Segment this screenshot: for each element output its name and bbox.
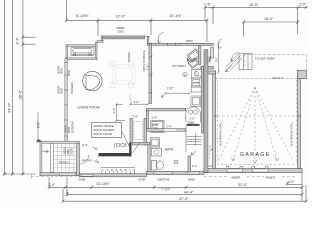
garage door notches	[226, 167, 268, 169]
dim stub y44	[23, 43, 36, 45]
small dim above shaft	[130, 103, 150, 106]
bottom extension x67	[66, 177, 68, 194]
nook wall window ticks	[168, 43, 176, 46]
garage stall dashed verticals	[214, 80, 302, 164]
hall lower west wall	[146, 111, 148, 129]
garage horizontal dashed arrow	[214, 115, 302, 117]
svg-text:8068'R: 8068'R	[266, 175, 275, 179]
leader j arrow	[230, 53, 238, 62]
svg-text:2'-4": 2'-4"	[166, 124, 172, 128]
crawl leader	[122, 131, 130, 147]
svg-text:SCREEN: SCREEN	[71, 121, 75, 133]
porch tile grid	[53, 143, 76, 171]
svg-text:3050: 3050	[60, 67, 64, 74]
window tick w2	[64, 74, 68, 76]
top wall step right	[147, 36, 149, 45]
porch top wall	[40, 141, 79, 143]
svg-text:FLOOR OVER: FLOOR OVER	[255, 56, 276, 60]
party wall inner line	[205, 50, 207, 173]
svg-text:GARAGE: GARAGE	[240, 152, 271, 158]
stall line right	[295, 80, 297, 164]
ticks dim 47-4	[62, 200, 308, 203]
bottom extension x306	[305, 185, 307, 201]
left dim vertical line 3	[22, 0, 24, 174]
extension x213	[212, 7, 214, 24]
svg-text:5067R-56: 5067R-56	[158, 177, 170, 181]
svg-text:5050: 5050	[118, 29, 124, 33]
svg-text:1'-6": 1'-6"	[204, 3, 212, 7]
step connector line	[145, 35, 149, 37]
shaft dashed interior	[134, 122, 143, 140]
fan leg 2	[233, 87, 255, 161]
bay step vertical	[101, 36, 103, 41]
svg-text:5050: 5050	[209, 56, 212, 62]
svg-text:3'-6": 3'-6"	[112, 108, 116, 114]
kitchen dim leader	[161, 93, 165, 97]
porch inner edge	[50, 143, 53, 172]
bay ring right	[96, 42, 98, 59]
front door arc	[80, 155, 89, 164]
stair dark wall	[99, 153, 132, 156]
window tick w1	[64, 62, 68, 64]
svg-text:9x19 PARKING STALL: 9x19 PARKING STALL	[220, 121, 223, 146]
floor over dashed line	[244, 54, 307, 56]
svg-text:13'-10½": 13'-10½"	[96, 182, 111, 186]
left dim bottom line	[3, 173, 36, 175]
window seat rect	[71, 48, 94, 56]
dim 4-0 line right	[287, 183, 302, 185]
door knob circle	[174, 160, 178, 164]
hall west wall	[149, 93, 152, 104]
porch overhang dashed	[32, 176, 77, 178]
left wall of living room	[65, 59, 67, 142]
window tick w4	[64, 104, 68, 106]
bath window 3050	[154, 172, 173, 174]
svg-text:10'-1½": 10'-1½"	[169, 14, 182, 18]
nook table tilted square 2	[188, 58, 199, 69]
svg-text:2'-4": 2'-4"	[49, 183, 56, 187]
left dim vertical line 2	[12, 0, 14, 174]
garage man door dashes	[210, 146, 217, 158]
nook table tilted square 1	[187, 49, 201, 62]
svg-text:1'-6": 1'-6"	[167, 87, 173, 91]
garage south wall	[204, 168, 302, 172]
svg-text:LIVING ROOM: LIVING ROOM	[78, 106, 100, 110]
svg-text:D: D	[184, 73, 186, 77]
svg-text:3'-0": 3'-0"	[214, 57, 218, 62]
kitchen wall behind counters	[201, 66, 203, 133]
garage dim vline	[217, 42, 220, 74]
svg-text:DINING: DINING	[127, 52, 131, 62]
window tick w5	[64, 119, 68, 121]
svg-text:4:12 CLG: 4:12 CLG	[272, 77, 283, 80]
porch south wall	[40, 173, 79, 176]
garage right wall	[298, 71, 301, 169]
top dim line y22	[244, 21, 298, 23]
svg-text:PORCH: PORCH	[59, 161, 69, 165]
garage pilaster	[298, 71, 307, 79]
svg-text:47'-4": 47'-4"	[179, 197, 189, 201]
svg-text:16'-0": 16'-0"	[264, 17, 274, 21]
step arrow	[226, 65, 233, 73]
shaft right wall	[144, 119, 146, 146]
svg-text:KITCHEN: KITCHEN	[172, 64, 186, 68]
garage footing dashes	[204, 175, 297, 177]
step diagonals	[226, 55, 242, 71]
svg-text:2'-4": 2'-4"	[152, 123, 158, 127]
stair mid rail	[195, 134, 197, 146]
bottom dim line 47-4	[63, 200, 306, 202]
wall tick dims	[149, 56, 152, 76]
svg-text:BATH: BATH	[165, 148, 174, 152]
ticks bottom dim 1	[48, 186, 304, 189]
nook east wall	[198, 45, 201, 64]
garage entry landing	[226, 53, 253, 72]
south wall entry segment	[79, 174, 146, 177]
nook leader arrow	[157, 33, 163, 43]
svg-text:3050: 3050	[60, 87, 64, 94]
tick marks left bottom	[3, 173, 24, 176]
svg-text:2'-0": 2'-0"	[134, 100, 140, 104]
svg-text:24'-6": 24'-6"	[7, 102, 12, 113]
v arrowheads bottom	[231, 158, 279, 164]
svg-text:31'-0": 31'-0"	[238, 183, 248, 187]
svg-text:12'-0": 12'-0"	[116, 15, 126, 19]
bath door jambs	[188, 156, 191, 172]
garage landing box	[196, 69, 203, 76]
svg-text:ENTRY: ENTRY	[82, 159, 92, 163]
dark band under arch	[187, 124, 200, 126]
basement stair treads	[187, 137, 202, 145]
extension x207	[206, 20, 208, 42]
svg-text:7'-6": 7'-6"	[145, 64, 149, 70]
nook east wall	[211, 47, 214, 58]
extension x243	[243, 22, 245, 37]
bottom extension x49	[48, 177, 50, 187]
hook 4-0	[286, 182, 289, 186]
porch step arrow	[43, 150, 49, 153]
wc closet walls	[150, 138, 159, 147]
sill line under seat	[71, 55, 94, 57]
rear door 2868	[187, 172, 200, 174]
stair treads top line	[101, 166, 136, 168]
garage door gap 1	[227, 169, 243, 172]
dn arrow	[191, 151, 196, 155]
svg-text:8068'R: 8068'R	[232, 175, 241, 179]
stair tread ticks	[102, 171, 135, 174]
kitchen dim 1-6	[164, 92, 191, 95]
kitchen garage-side top wall	[201, 66, 214, 69]
ticks y22	[242, 21, 299, 24]
bay step horizontal	[97, 41, 103, 43]
svg-text:2'-6": 2'-6"	[152, 115, 158, 119]
porch left wall	[40, 141, 42, 175]
left dim vertical line 1	[4, 0, 6, 174]
porch dim vline	[37, 112, 42, 142]
entry window 0508	[81, 174, 93, 176]
crawl note box	[92, 123, 122, 138]
top dim line y7	[205, 6, 307, 8]
svg-text:4'-0": 4'-0"	[288, 180, 295, 184]
bay ring bottom	[66, 58, 97, 60]
top dim line y20	[67, 19, 208, 21]
top wall 5050 band	[103, 36, 145, 39]
garage left wall	[213, 71, 216, 169]
svg-text:16'-0": 16'-0"	[249, 3, 259, 7]
entry dim tick	[93, 147, 98, 150]
bath hall walls	[146, 129, 186, 132]
bay ring top	[66, 45, 97, 47]
svg-text:2850: 2850	[186, 39, 193, 43]
svg-text:2'-0": 2'-0"	[300, 3, 308, 7]
svg-text:4'-0: 4'-0	[65, 191, 69, 196]
garage bottom dashed	[217, 163, 296, 165]
fan leg 1	[219, 87, 256, 161]
svg-text:0508: 0508	[139, 177, 146, 181]
svg-text:7'-1½": 7'-1½"	[161, 188, 171, 192]
floor over dashed vert right	[305, 55, 307, 71]
arch outline	[186, 107, 201, 123]
entry west wall	[77, 143, 80, 175]
toilet bowl	[157, 161, 164, 170]
extension x205	[204, 7, 206, 20]
svg-text:6'-0": 6'-0"	[36, 122, 40, 128]
window 2850 in nook wall	[180, 44, 204, 46]
fan leg 3	[255, 87, 277, 161]
bath west wall	[148, 145, 150, 172]
porch south window	[60, 173, 76, 175]
bottom extension x302	[301, 173, 303, 202]
garage door gap 2	[253, 169, 269, 172]
garage ceiling dashed	[216, 77, 298, 79]
wall below shaft	[132, 142, 150, 145]
nook dark wedge	[187, 57, 190, 62]
floor over dashed vert left	[243, 55, 245, 70]
stall line left	[217, 80, 219, 164]
svg-text:SCREEN: SCREEN	[70, 82, 74, 94]
kitchen counters	[191, 70, 201, 107]
toilet tank	[151, 161, 156, 171]
extension x297 right	[297, 7, 299, 34]
svg-text:6'-0": 6'-0"	[82, 143, 88, 147]
fan leg 4	[255, 87, 293, 161]
svg-text:2868: 2868	[188, 177, 195, 181]
window seat cushion	[73, 48, 92, 53]
svg-text:36'-6": 36'-6"	[18, 89, 23, 100]
extension x98	[97, 20, 99, 36]
bottom extension x63	[62, 189, 64, 201]
svg-text:1 2 3 4 5 6 7 8: 1 2 3 4 5 6 7 8	[102, 168, 136, 172]
svg-text:2'-6": 2'-6"	[133, 115, 139, 119]
arch circles	[189, 110, 193, 114]
bay ring left	[66, 45, 68, 60]
bath door gap in top wall	[164, 129, 176, 131]
dim stub y37	[23, 36, 36, 38]
faint dining table	[110, 61, 135, 88]
south wall bath segment	[146, 172, 204, 175]
OO vent circles	[114, 143, 126, 147]
shaft left wall	[130, 119, 132, 143]
extension x151	[150, 20, 152, 35]
leader j arrow 2	[218, 39, 222, 49]
svg-text:5'-10½": 5'-10½"	[76, 14, 89, 18]
round table circle	[83, 71, 102, 90]
ticks dim 44-4	[66, 193, 304, 196]
garage nw stub	[208, 71, 216, 74]
svg-text:SCRN: SCRN	[71, 147, 74, 154]
window tick w6	[64, 135, 68, 137]
top wall band center line	[103, 36, 145, 38]
kitchen bottom wall	[146, 108, 186, 111]
stair dark wall vertical	[129, 143, 131, 157]
party wall hatch top	[204, 51, 208, 65]
extension x66	[66, 0, 68, 20]
seat foot left	[73, 53, 75, 55]
dining west wall	[149, 44, 152, 93]
overhang tick	[31, 174, 33, 178]
svg-text:SOLID CR DR: SOLID CR DR	[93, 132, 112, 136]
ticks on stubs	[22, 36, 25, 46]
arrowheads on horiz dashed	[214, 115, 302, 118]
bottom dim line 44-4	[67, 193, 302, 195]
seat foot right	[89, 53, 91, 55]
interior dim line	[115, 103, 125, 122]
fan center vertical	[254, 87, 256, 164]
svg-text:3050: 3050	[67, 69, 71, 76]
bath vanity	[152, 149, 162, 157]
svg-text:2'-4": 2'-4"	[16, 37, 20, 45]
table inner D	[86, 75, 100, 89]
ticks top dim y20	[65, 19, 208, 22]
diagonal brace	[132, 143, 140, 154]
svg-text:44'-4": 44'-4"	[184, 190, 194, 194]
svg-text:9x19 PARKING STALL: 9x19 PARKING STALL	[291, 121, 294, 146]
svg-text:0508: 0508	[79, 177, 86, 181]
dashed line above shaft	[130, 95, 132, 104]
nook top wall	[147, 43, 213, 45]
window tick w3	[64, 89, 68, 91]
ticks top dim y7	[204, 6, 307, 9]
svg-text:2'-4": 2'-4"	[192, 164, 198, 168]
stair left wall	[185, 126, 187, 152]
kitchen symbol circle	[183, 72, 187, 76]
entry leader arrow	[94, 160, 99, 164]
bottom dim line 1	[49, 186, 302, 188]
water heater box	[151, 120, 164, 132]
